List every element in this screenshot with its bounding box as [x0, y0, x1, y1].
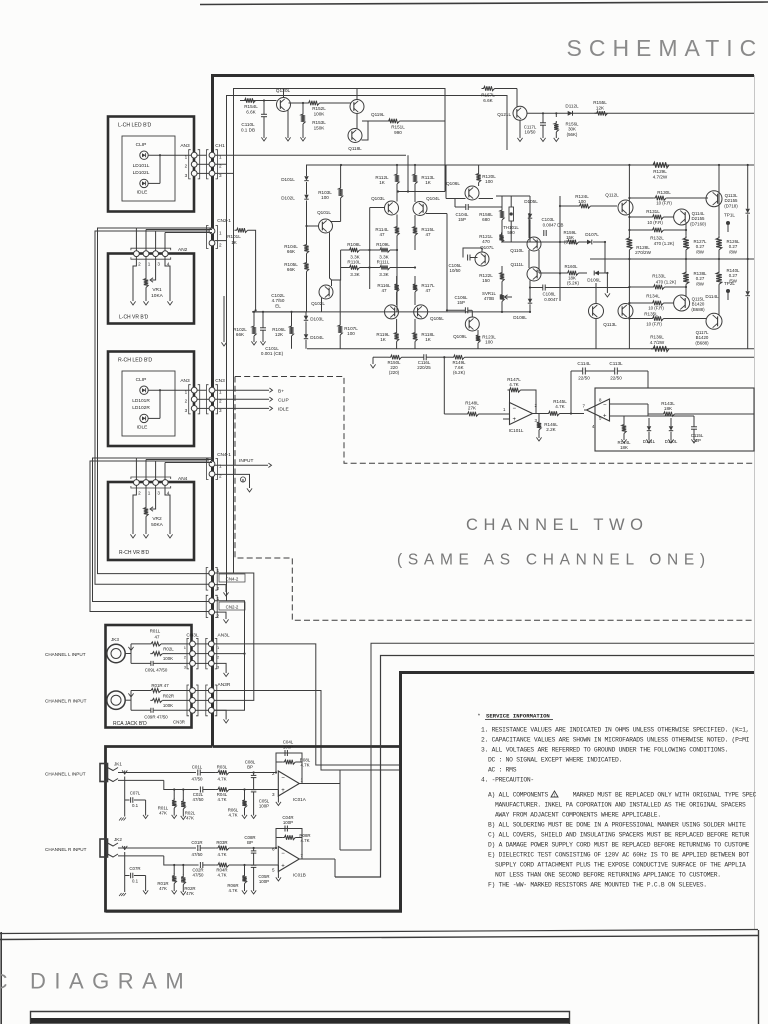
capacitor C09R 47/50 — [150, 708, 152, 713]
svg-text:D101L: D101L — [281, 177, 295, 182]
resistor R117L 47 — [413, 282, 417, 292]
svg-text:2: 2 — [219, 242, 222, 247]
resistor R06L 4.7K — [243, 788, 245, 790]
svg-text:100: 100 — [485, 179, 493, 184]
svg-text:AN3: AN3 — [180, 143, 190, 149]
svg-text:AN3L: AN3L — [218, 633, 230, 639]
svg-text:3: 3 — [185, 173, 188, 178]
resistor R114L 47 — [395, 225, 399, 236]
svg-text:1: 1 — [148, 491, 151, 496]
svg-text:4.7K: 4.7K — [217, 852, 226, 857]
wires cap bank — [571, 370, 583, 372]
svg-text:(D7160): (D7160) — [690, 221, 706, 226]
bottom page right edge — [758, 930, 760, 1024]
connector AN4 — [131, 477, 171, 479]
op-amp IC01B — [278, 847, 299, 872]
svg-text:Q101L: Q101L — [317, 210, 331, 215]
svg-text:D) A DAMAGE POWER SUPPLY CORD: D) A DAMAGE POWER SUPPLY CORD MUST BE RE… — [488, 842, 750, 849]
svg-text:100P: 100P — [283, 820, 293, 825]
svg-text:7: 7 — [583, 404, 586, 409]
capacitor C115L 22P — [691, 426, 697, 428]
svg-text:LD102R: LD102R — [132, 405, 150, 411]
resistor R160L 18K — [566, 271, 579, 275]
svg-text:R01L: R01L — [150, 628, 161, 633]
resistor R133L 470 (1.2K) — [652, 285, 665, 289]
svg-text:F) THE -WW- MARKED RESISTORS: F) THE -WW- MARKED RESISTORS ARE MOUNTED… — [488, 882, 707, 889]
svg-text:C108L: C108L — [543, 292, 556, 297]
svg-text:R02L: R02L — [163, 647, 174, 652]
svg-text:CN3R: CN3R — [173, 720, 185, 725]
amp mid-left rail — [252, 311, 530, 313]
svg-text:100K: 100K — [314, 112, 326, 117]
svg-text:−: − — [281, 851, 285, 857]
resistor R123L 100 — [476, 333, 480, 343]
capacitor C05R 100P — [253, 853, 255, 865]
VR1 potentiometer — [144, 277, 148, 288]
svg-text:AC : RMS: AC : RMS — [488, 767, 517, 774]
svg-text:C) ALL COVERS, SHIELD AND INSU: C) ALL COVERS, SHIELD AND INSULATING SPA… — [488, 832, 750, 839]
svg-text:Q118L: Q118L — [348, 146, 362, 151]
RCA jack JK4 — [107, 691, 125, 709]
svg-text:R160L: R160L — [565, 264, 578, 269]
svg-text:C09L 47/50: C09L 47/50 — [145, 668, 168, 673]
transistor Q107L — [475, 252, 489, 266]
svg-text:4.7K: 4.7K — [228, 888, 237, 893]
svg-text:/8W: /8W — [696, 249, 705, 254]
svg-text:/8W: /8W — [696, 281, 705, 286]
L-CH LED inner outline — [122, 136, 175, 201]
wire JK3 contact — [125, 653, 131, 655]
svg-text:R01R 47: R01R 47 — [151, 683, 169, 688]
svg-text:C114L: C114L — [577, 361, 591, 366]
svg-text:EL: EL — [275, 303, 281, 308]
resistor R02R 100K — [150, 698, 162, 702]
LED LD102R — [140, 414, 148, 422]
connector AN3L — [206, 638, 208, 669]
lower bank vertical — [628, 259, 630, 349]
VR1 pot wires — [145, 256, 147, 276]
svg-text:R03L: R03L — [217, 765, 228, 770]
svg-text:3: 3 — [272, 792, 275, 797]
svg-text:B) ALL SOLDERING MUST BE DONE: B) ALL SOLDERING MUST BE DONE IN A PROFE… — [488, 822, 746, 829]
resistor R01R 47 — [149, 689, 161, 693]
svg-text:10/50: 10/50 — [525, 130, 537, 135]
svg-text:RCA JACK B'D: RCA JACK B'D — [113, 721, 147, 727]
resistor R122L 150 — [500, 271, 504, 282]
svg-text:IC01B: IC01B — [293, 873, 306, 878]
svg-text:2: 2 — [217, 586, 220, 591]
svg-text:47/50: 47/50 — [193, 797, 205, 802]
svg-text:100: 100 — [578, 199, 586, 204]
wire INPUT arrow — [215, 464, 268, 466]
svg-text:47K: 47K — [159, 811, 167, 816]
resistor R134L 10 (F.R) — [651, 301, 664, 305]
wires left margin into CN4-2/CN2-2 — [98, 228, 210, 574]
svg-text:CLIP: CLIP — [136, 142, 147, 148]
svg-text:15P: 15P — [458, 217, 466, 222]
resistor R131L 10 (F.R) — [651, 215, 664, 219]
bias frame wires — [234, 89, 446, 151]
svg-text:100P: 100P — [259, 804, 269, 809]
svg-text:IC01A: IC01A — [293, 797, 307, 802]
svg-text:22/50: 22/50 — [610, 376, 622, 381]
transistor Q106L — [465, 186, 479, 200]
svg-text:LD102L: LD102L — [133, 170, 150, 176]
svg-text:DIAGRAM: DIAGRAM — [30, 969, 192, 994]
svg-text:C: C — [0, 970, 13, 994]
svg-text:47: 47 — [155, 634, 160, 639]
svg-text:A) ALL COMPONENTS MARKED: A) ALL COMPONENTS MARKED MUST BE REPLACE… — [488, 792, 757, 799]
resistor R138L 0.27/8W — [683, 270, 689, 284]
svg-text:R108L: R108L — [347, 242, 361, 247]
resistor R105L 66K — [304, 261, 308, 272]
R-CH VR board box — [108, 482, 194, 560]
CN2-2 pin2 arrow — [214, 612, 226, 619]
capacitor C05L 100P — [253, 778, 255, 790]
svg-text:0.0047: 0.0047 — [544, 297, 558, 302]
svg-text:27K: 27K — [468, 406, 477, 411]
svg-text:D104L: D104L — [310, 335, 324, 340]
svg-text:10 (F.R): 10 (F.R) — [647, 220, 663, 225]
wire CH1 pin1 to amp — [215, 154, 406, 156]
svg-text:10KA: 10KA — [151, 293, 164, 299]
capacitor C116L 220/25 — [423, 354, 425, 360]
trimmer SVR1L 470B — [500, 293, 504, 302]
svg-text:(B688): (B688) — [691, 307, 705, 312]
connector AN3R — [206, 685, 208, 716]
svg-text:IDLE: IDLE — [278, 407, 289, 413]
svg-text:CHANNEL R INPUT: CHANNEL R INPUT — [45, 699, 87, 704]
wire R160L to lower driver base — [560, 272, 566, 274]
svg-text:CH1: CH1 — [215, 143, 225, 149]
svg-text:1K: 1K — [379, 180, 386, 185]
resistor R01L 47 — [149, 642, 161, 646]
diode D111L — [647, 426, 651, 430]
svg-text:R151L: R151L — [391, 125, 405, 130]
connector CN3R — [187, 685, 189, 716]
svg-text:4.7K: 4.7K — [217, 777, 226, 782]
svg-text:CN2-1: CN2-1 — [217, 218, 231, 224]
feedback R147L 4.7K — [508, 390, 510, 408]
R-CH LED board box — [108, 352, 194, 447]
resistor R115L 47 — [413, 225, 417, 236]
svg-text:1: 1 — [219, 230, 222, 235]
svg-text:(6.2K): (6.2K) — [453, 370, 465, 375]
svg-text:47K: 47K — [186, 891, 194, 896]
svg-text:6: 6 — [272, 847, 275, 852]
resistor R120L 100 — [476, 172, 480, 183]
svg-text:7: 7 — [301, 853, 304, 858]
left bus vertical 1 — [407, 155, 409, 191]
svg-text:C09R 47/50: C09R 47/50 — [144, 714, 168, 719]
svg-text:Q105L: Q105L — [430, 316, 444, 321]
svg-text:R154L: R154L — [244, 104, 258, 109]
wire B+ arrow — [215, 389, 269, 391]
wires Q119/Q118 — [320, 102, 351, 104]
capacitor C114L 22/50 — [582, 368, 584, 375]
svg-text:Q112L: Q112L — [605, 193, 619, 198]
capacitor C08L BP — [253, 771, 255, 773]
transistor Q102L — [319, 285, 333, 299]
resistor R119L 1K — [394, 331, 398, 342]
resistor R156L 30K fusible — [555, 112, 557, 114]
svg-text:4.7K: 4.7K — [509, 382, 519, 387]
resistor R03L 4.7K — [216, 770, 229, 774]
svg-text:18K: 18K — [664, 406, 673, 411]
resistor R109L 3.3K — [378, 248, 390, 252]
label CN4-2 boxed — [219, 574, 245, 582]
resistor R127L 0.27/8W — [683, 236, 689, 250]
svg-text:LD101R: LD101R — [132, 398, 150, 404]
transistor Q121L — [516, 89, 518, 107]
resistor R154L 6.6K — [243, 98, 256, 102]
transistor Q119L — [350, 100, 364, 114]
wire AN3L pin2 to bus — [214, 653, 244, 655]
svg-text:NOT LESS THAN ONE SECOND BEFOR: NOT LESS THAN ONE SECOND BEFORE RETURNIN… — [495, 872, 721, 879]
transistor Q116L lower driver — [618, 304, 633, 319]
svg-text:B: B — [242, 478, 245, 483]
resistor R140L 0.27/5W — [716, 270, 722, 284]
warning triangle symbol — [551, 791, 558, 797]
wire AN3-CH1 pin2 — [197, 163, 210, 165]
connector CN3 — [207, 385, 209, 414]
svg-text:+: + — [281, 863, 285, 869]
svg-text:270/2W: 270/2W — [635, 250, 651, 255]
svg-text:2: 2 — [185, 164, 188, 169]
svg-text:D105L: D105L — [524, 199, 538, 204]
svg-text:3.3K: 3.3K — [350, 272, 360, 277]
svg-text:R152L: R152L — [312, 106, 326, 111]
svg-text:D102L: D102L — [281, 196, 295, 201]
service info box border — [106, 673, 755, 912]
svg-text:0.1: 0.1 — [132, 803, 139, 808]
amp top rail — [306, 164, 754, 166]
svg-text:470 (1.2K): 470 (1.2K) — [656, 280, 677, 285]
svg-text:990: 990 — [394, 130, 402, 135]
svg-text:L-CH LED B'D: L-CH LED B'D — [118, 123, 152, 129]
svg-text:15P: 15P — [457, 300, 465, 305]
svg-text:VR2: VR2 — [152, 516, 162, 522]
svg-text:1: 1 — [184, 645, 187, 650]
svg-text:CLIP: CLIP — [278, 398, 289, 404]
capacitor C04R 100P — [284, 826, 286, 832]
diode D107L — [587, 240, 592, 245]
resistor R149L 7.6K (6.2K) — [452, 355, 465, 359]
bottom inner box dark band — [32, 1019, 569, 1024]
wires CN3R-AN3R — [195, 690, 209, 692]
svg-text:C01R: C01R — [191, 840, 202, 845]
svg-text:3. ALL VOLTAGES ARE REFERRED T: 3. ALL VOLTAGES ARE REFERRED TO GROUND U… — [481, 747, 728, 754]
svg-text:2: 2 — [272, 771, 275, 776]
svg-text:INPUT: INPUT — [239, 458, 253, 464]
svg-text:JK2: JK2 — [114, 837, 122, 842]
svg-text:R130L: R130L — [657, 190, 671, 195]
resistor R129L 4.7/2W — [651, 162, 669, 168]
svg-text:66K: 66K — [287, 267, 296, 272]
svg-text:SUPPLY CORD ATTACHMENT PLUS TH: SUPPLY CORD ATTACHMENT PLUS THE EXPOSE C… — [495, 862, 746, 869]
svg-text:2.2K: 2.2K — [546, 427, 556, 432]
svg-text:R132L: R132L — [650, 236, 664, 241]
resistor R135L 10 (F.R) — [651, 316, 664, 320]
wire Q121L out — [527, 112, 754, 114]
connector CN4-2 — [206, 568, 208, 591]
phone jack JK2 — [100, 839, 108, 857]
resistor R113L 1K — [413, 172, 417, 184]
svg-text:4.7K: 4.7K — [300, 763, 309, 768]
wire IC01A output to bus — [339, 770, 341, 784]
svg-text:4.7/2W: 4.7/2W — [650, 340, 665, 345]
svg-text:LD101L: LD101L — [133, 163, 150, 169]
op-amp IC01B output wire — [299, 858, 335, 860]
ground below Q121L — [519, 120, 521, 138]
svg-text:100: 100 — [347, 331, 355, 336]
connector AN2 — [131, 248, 171, 250]
resistor R130L 10 (F.R) — [653, 196, 666, 200]
resistor R104L 66K — [304, 243, 308, 254]
svg-text:3: 3 — [157, 491, 160, 496]
resistor R118L 1K — [413, 331, 417, 342]
svg-text:680: 680 — [482, 217, 490, 222]
svg-text:D114L: D114L — [705, 294, 719, 299]
resistor R145L 4.7K — [547, 411, 560, 415]
svg-text:47K: 47K — [186, 816, 194, 821]
wire LED1 to bus — [148, 154, 206, 156]
svg-text:470B: 470B — [484, 296, 494, 301]
svg-text:!: ! — [554, 793, 555, 798]
resistor R153L 150K — [302, 103, 304, 112]
resistor R136L 4.7/2W — [651, 346, 669, 352]
svg-text:4.7K: 4.7K — [217, 797, 226, 802]
svg-text:47: 47 — [381, 288, 387, 293]
wire CLIP arrow — [215, 398, 269, 400]
svg-text:1: 1 — [217, 596, 220, 601]
wire Q120L emitter to R152L — [289, 102, 307, 104]
svg-text:CHANNEL TWO: CHANNEL TWO — [466, 516, 649, 534]
op-amp IC01A plus input ground — [277, 790, 279, 803]
resistor R103L 100 — [338, 186, 342, 198]
svg-text:R153L: R153L — [312, 120, 326, 125]
capacitor C02L 47/50 — [199, 787, 201, 793]
svg-text:+: + — [281, 788, 285, 794]
page top scan edge line — [200, 2, 768, 5]
resistor R08L 4.7K — [282, 760, 295, 764]
capacitor C01L 47/50 — [197, 770, 199, 776]
svg-text:47: 47 — [425, 288, 431, 293]
svg-text:R129L: R129L — [653, 169, 667, 174]
resistor R107L 100 — [338, 323, 342, 335]
svg-text:10 (F.R): 10 (F.R) — [648, 306, 664, 311]
transistor Q113L out — [706, 191, 722, 207]
VR2 potentiometer — [144, 506, 148, 517]
resistor R04L 4.7K — [216, 787, 229, 791]
amp bottom rail — [307, 348, 754, 350]
svg-text:4.7/2W: 4.7/2W — [653, 175, 668, 180]
terminal arrows — [130, 301, 135, 305]
node B circle — [215, 474, 250, 488]
capacitor C108L 0.0047 — [542, 285, 544, 291]
svg-text:100P: 100P — [283, 745, 293, 750]
output wrap wire 2 (medium) — [335, 656, 754, 878]
svg-text:R02R: R02R — [163, 693, 174, 698]
svg-text:R136L: R136L — [650, 335, 664, 340]
svg-text:−: − — [603, 403, 607, 409]
svg-text:220/25: 220/25 — [417, 365, 431, 370]
svg-text:1. RESISTANCE VALUES ARE INDIC: 1. RESISTANCE VALUES ARE INDICATED IN OH… — [481, 727, 749, 734]
resistor R126L 0.27/8W — [716, 236, 722, 250]
wire AN3-CH1 pin3 — [197, 172, 210, 174]
svg-text:CN4-2: CN4-2 — [226, 576, 239, 581]
svg-text:L-CH VR B'D: L-CH VR B'D — [119, 315, 149, 321]
svg-text:CHANNEL L INPUT: CHANNEL L INPUT — [45, 652, 86, 657]
svg-text:AN4: AN4 — [178, 476, 188, 482]
svg-text:3: 3 — [184, 664, 187, 669]
resistor R121L 470 — [499, 233, 503, 243]
L-CH VR board box — [108, 254, 194, 324]
wire LED1R to bus — [148, 389, 206, 391]
svg-text:470 (1.2K): 470 (1.2K) — [654, 241, 675, 246]
feedback wire IC01B — [276, 829, 302, 860]
wire JK4 contact — [125, 699, 131, 701]
LED LD101R — [140, 386, 148, 394]
op-amp IC01A output wire — [299, 783, 340, 785]
svg-text:3: 3 — [185, 408, 188, 413]
resistor R148L 27K — [466, 412, 479, 416]
svg-text:1: 1 — [185, 155, 188, 160]
RCA jack JK3 — [107, 644, 125, 662]
svg-text:D106L: D106L — [587, 278, 601, 283]
svg-text:SCHEMATIC: SCHEMATIC — [567, 35, 764, 61]
svg-text:C113L: C113L — [609, 361, 623, 366]
svg-text:10/50: 10/50 — [450, 268, 462, 273]
wire CH1 pin3 jog — [215, 150, 234, 173]
capacitor C113L 22/50 — [614, 368, 616, 375]
ground arrow left of R150L — [373, 356, 389, 358]
resistor R155L 12K — [595, 111, 608, 115]
svg-text:2: 2 — [217, 613, 220, 618]
svg-text:Q106L: Q106L — [446, 181, 460, 186]
svg-text:Q113L: Q113L — [603, 322, 617, 327]
svg-text:1K: 1K — [380, 337, 387, 342]
transistor Q115L out lower — [674, 295, 690, 311]
transistor Q110L — [527, 237, 541, 251]
wire Q104L emitter frame — [426, 213, 447, 215]
capacitor C02R 47/50 — [199, 862, 201, 868]
svg-text:4.7K: 4.7K — [228, 813, 237, 818]
svg-text:AN2: AN2 — [178, 247, 188, 253]
svg-text:3: 3 — [157, 262, 160, 267]
resistor R01L 47K — [173, 790, 175, 799]
capacitor C117L 10/50 — [542, 112, 544, 114]
svg-text:CN2-2: CN2-2 — [226, 604, 239, 609]
svg-text:E) DIELECTRIC TEST CONSISTING: E) DIELECTRIC TEST CONSISTING OF 120V AC… — [488, 852, 750, 859]
svg-text:3.3K: 3.3K — [379, 272, 389, 277]
svg-text:47/50: 47/50 — [192, 777, 204, 782]
op-amp IC101 right (mirrored) — [595, 388, 754, 451]
svg-text:1: 1 — [185, 390, 188, 395]
jack JK1 signal wires — [118, 772, 196, 774]
svg-text:C07L: C07L — [130, 791, 141, 796]
wire bias rail — [240, 100, 277, 102]
svg-text:R134L: R134L — [646, 294, 660, 299]
transistor Q117L out lower — [706, 313, 722, 329]
jack JK2 signal wires — [118, 847, 196, 849]
label CN2-2 boxed — [219, 602, 245, 610]
svg-text:/5W: /5W — [729, 278, 738, 283]
svg-text:2: 2 — [217, 655, 220, 660]
svg-text:10 (F.R): 10 (F.R) — [656, 201, 672, 206]
svg-text:6.6K: 6.6K — [483, 98, 493, 103]
svg-text:2: 2 — [184, 655, 187, 660]
